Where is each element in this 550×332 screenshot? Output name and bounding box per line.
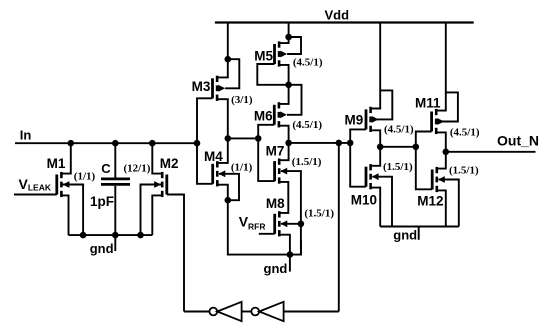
wire node C to M12 gate xyxy=(416,147,432,190)
svg-text:M3: M3 xyxy=(192,79,211,94)
node gnd-M1 bulk xyxy=(80,232,87,239)
transistor M11 xyxy=(432,109,445,134)
wire M3 source down xyxy=(217,99,228,138)
svg-text:M8: M8 xyxy=(266,196,285,211)
wire M7 source to M8 drain xyxy=(279,182,288,213)
node gnd-M2 bulk xyxy=(137,232,144,239)
svg-text:M6: M6 xyxy=(254,108,273,123)
svg-text:M11: M11 xyxy=(415,96,441,111)
wire M5 drain down xyxy=(279,65,289,85)
svg-text:M9: M9 xyxy=(345,113,364,128)
Vdd rail xyxy=(215,21,474,23)
wire M4 drain up xyxy=(217,138,228,163)
svg-text:1pF: 1pF xyxy=(90,194,114,209)
node middle gnd xyxy=(287,251,294,258)
svg-text:(1.5/1): (1.5/1) xyxy=(383,161,413,173)
wire middle gnd stub xyxy=(289,255,291,272)
wire Out_N xyxy=(446,151,536,153)
wire C bottom plate through gnd rail (gnd stub) xyxy=(114,186,116,251)
node In-M1 xyxy=(68,140,75,147)
node A right xyxy=(347,140,354,147)
wire node A rail xyxy=(289,142,351,144)
transistor M5 xyxy=(275,41,288,66)
wire node C rail xyxy=(380,146,416,148)
transistor M7 xyxy=(275,159,288,184)
node gnd-C xyxy=(112,232,119,239)
wire M4 bulk loop xyxy=(219,174,239,200)
wire M9 bulk loop xyxy=(372,90,392,119)
node Out xyxy=(443,149,450,156)
transistor M12 xyxy=(432,167,445,192)
transistor M2 xyxy=(154,172,167,197)
svg-text:(1.5/1): (1.5/1) xyxy=(304,208,334,220)
node B left xyxy=(225,135,232,142)
wire Vdd to M5 source xyxy=(279,23,289,44)
svg-text:(12/1): (12/1) xyxy=(124,162,151,174)
wire feedback right vertical xyxy=(338,143,340,312)
wire M2 gate to feedback line xyxy=(167,195,184,312)
node C left xyxy=(377,144,384,151)
svg-text:M2: M2 xyxy=(160,156,179,171)
wire node B rail xyxy=(228,137,258,139)
transistor M6 xyxy=(274,102,287,127)
wire M2 bulk to gnd rail xyxy=(141,185,162,236)
transistor M9 xyxy=(366,107,379,132)
wire M2 source to gnd rail xyxy=(152,195,162,235)
wire M12 bulk to right gnd rail xyxy=(439,180,459,227)
transistor M1 xyxy=(57,172,70,197)
wire M1 drain to In rail xyxy=(61,143,70,173)
wire M11 drain to Out node xyxy=(436,132,446,151)
wire M3 bulk loop xyxy=(225,59,239,88)
transistor M3 xyxy=(213,76,226,101)
wire M11 bulk loop xyxy=(438,92,458,121)
wire M9 drain to node C xyxy=(371,130,381,147)
wire M1 source to gnd rail xyxy=(61,195,68,235)
svg-text:M4: M4 xyxy=(204,149,223,164)
svg-text:(1.5/1): (1.5/1) xyxy=(292,156,322,168)
node In-M2 xyxy=(149,140,156,147)
wire M5 bulk loop xyxy=(287,37,301,54)
wire right gnd stub xyxy=(418,227,420,240)
wire M5 drain to M6 source xyxy=(279,85,289,104)
wire M10 drain to node C xyxy=(371,147,381,166)
node B right xyxy=(255,135,262,142)
wire left gnd rail xyxy=(69,234,153,236)
svg-text:(1.5/1): (1.5/1) xyxy=(449,165,479,177)
wire M7 bulk down xyxy=(281,171,301,255)
svg-text:gnd: gnd xyxy=(90,241,114,256)
wire M8 bulk xyxy=(281,223,301,225)
wire VRFR to M8 gate xyxy=(259,233,275,235)
wire M6 drain down to node A xyxy=(279,126,289,143)
transistor M4 xyxy=(213,161,226,186)
wire node A to M10 gate xyxy=(350,143,366,187)
svg-text:M12: M12 xyxy=(417,194,443,209)
svg-text:(4.5/1): (4.5/1) xyxy=(293,57,323,69)
node M3 drain xyxy=(225,56,232,63)
svg-text:gnd: gnd xyxy=(393,228,417,243)
wire M10 source to right gnd rail xyxy=(371,188,381,227)
wire M5 gate loop xyxy=(257,64,288,85)
wire between inverters xyxy=(242,311,252,313)
capacitor C1 1pF xyxy=(101,179,130,185)
node A feedback xyxy=(336,140,343,147)
node C right xyxy=(413,144,420,151)
wire M9 source to Vdd xyxy=(371,23,381,109)
wire M4 source down xyxy=(217,185,228,201)
inverter INV2 xyxy=(251,302,283,321)
node In-C xyxy=(112,140,119,147)
wire M4 source to middle gnd rail xyxy=(228,200,290,254)
wire middle gnd rail right corner xyxy=(290,240,301,255)
wire In node to M4 gate xyxy=(197,143,213,184)
wire In rail xyxy=(15,142,197,144)
node M5 source xyxy=(285,34,292,41)
svg-text:C: C xyxy=(101,161,111,176)
wire M12 drain to Out node xyxy=(437,152,446,169)
svg-text:(1/1): (1/1) xyxy=(74,171,96,183)
wire right gnd rail xyxy=(380,226,459,228)
wire M6 bulk loop xyxy=(287,85,302,115)
svg-text:M5: M5 xyxy=(254,48,273,63)
node In end xyxy=(194,140,201,147)
wire feedback line left segment xyxy=(184,311,209,313)
wire feedback line right segment xyxy=(284,311,339,313)
svg-text:(1/1): (1/1) xyxy=(231,161,253,173)
wire Vdd to M3 drain xyxy=(217,23,228,78)
svg-text:gnd: gnd xyxy=(264,261,288,276)
svg-text:M7: M7 xyxy=(266,144,285,159)
svg-text:In: In xyxy=(20,128,32,143)
wire M3 gate to In node xyxy=(197,98,213,143)
wire node C to M11 gate xyxy=(416,132,432,147)
svg-text:(4.5/1): (4.5/1) xyxy=(384,123,414,135)
svg-text:M1: M1 xyxy=(47,156,66,171)
svg-text:Out_N: Out_N xyxy=(497,133,539,149)
svg-text:M10: M10 xyxy=(351,192,377,207)
svg-text:(4.5/1): (4.5/1) xyxy=(450,127,480,139)
wire node A to M9 gate xyxy=(350,129,366,143)
wire M12 source to right gnd rail xyxy=(437,190,446,226)
transistor M8 xyxy=(275,211,288,236)
wire M1 bulk to gnd rail xyxy=(61,185,83,236)
svg-text:(3/1): (3/1) xyxy=(231,94,253,106)
node M5-M6 xyxy=(285,82,292,89)
wire M7 gate to node B xyxy=(258,138,274,181)
node M4 source xyxy=(225,197,232,204)
wire M8 source to middle gnd xyxy=(279,235,290,255)
wire M2 drain to In rail xyxy=(152,143,162,173)
transistor M10 xyxy=(366,164,379,189)
node M8 bulk xyxy=(298,221,305,228)
inverter INV1 xyxy=(209,302,241,321)
wire M10 bulk to right gnd rail xyxy=(372,177,392,227)
svg-text:(4.5/1): (4.5/1) xyxy=(292,119,322,131)
wire C top plate to In rail xyxy=(114,143,116,177)
node A left xyxy=(285,140,292,147)
wire M7 drain to node A xyxy=(279,143,288,160)
svg-text:Vdd: Vdd xyxy=(325,8,350,23)
wire M6 gate to node B xyxy=(258,125,274,139)
wire VLEAK to M1 gate xyxy=(14,194,57,196)
wire M11 source to Vdd xyxy=(436,23,446,111)
